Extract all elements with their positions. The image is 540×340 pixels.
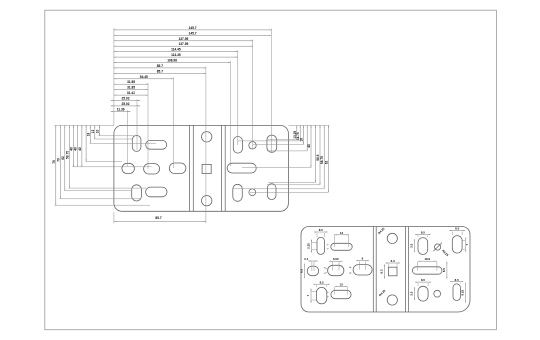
top dim 11.36 (row 16) [114,110,127,112]
svg-text:31.85: 31.85 [127,86,135,90]
svg-text:25.02: 25.02 [122,97,130,101]
svg-text:31.41: 31.41 [127,91,135,95]
left stack top extension line [55,124,114,126]
dim 6.5 right of long slot [446,262,448,279]
left dim 76 [55,125,57,205]
svg-text:6.3: 6.3 [391,259,395,263]
svg-text:108.96: 108.96 [167,59,177,63]
left stack ext y=143.3 [90,142,157,144]
top dim 85.7 (row 8) [114,67,206,69]
svg-text:11.36: 11.36 [117,107,125,111]
left stack ext y=198.8 [60,198,141,200]
main right top vertical slot A [233,137,242,154]
right dim aux [306,125,308,150]
svg-text:13: 13 [340,231,344,235]
left stack ext y=205.2 [55,204,151,206]
main middle top circle [202,132,212,142]
dim 6.3 above square [387,264,389,267]
right dim 14.75 [299,125,301,140]
dim 8.5 above slot [316,233,318,237]
left dim 40 [73,125,75,166]
svg-text:6.52: 6.52 [333,257,339,261]
svg-text:85.7: 85.7 [157,69,163,73]
dim 18.9 above [417,262,419,271]
top stack ext x=230.3 [229,61,231,166]
left dim 40 [81,125,83,166]
main view plate outline [114,125,289,211]
top dim 114.45 (row 6) [114,56,238,58]
main middle square hole [202,164,211,173]
svg-text:85.7: 85.7 [155,216,161,220]
main left middle slot 1 [122,163,134,173]
bottom dim 85.7 [114,220,206,222]
detail R vertical slot bottom A [418,286,428,301]
top stack ext x=237.8 [237,50,239,145]
svg-text:85.7: 85.7 [157,64,163,68]
detail R vertical slot top B [452,236,462,254]
main right top small circle [249,142,256,149]
main left bottom vertical slot [132,185,142,201]
tick arrows around middle slot 1 [325,267,327,270]
bottom ext left [113,212,115,223]
detail view plate outline [301,227,470,313]
main left top horizontal slot [146,140,167,149]
top dim 137.95 (row 3) [114,40,253,42]
detail L vertical slot bottom [316,287,326,304]
right stack ext y=140.9 [238,140,301,142]
detail R vertical slot bottom B [453,284,460,301]
top dim 31.41 (row 13) [114,94,148,96]
svg-text:40: 40 [307,144,311,148]
detail bend line right pair [405,227,407,313]
detail M top circle [387,233,397,243]
top dim 85.7 (row 9) [114,72,206,74]
left dim 70 [59,125,61,198]
svg-text:2.1: 2.1 [304,257,308,261]
detail L middle slot 3 [353,265,372,275]
svg-text:145.7: 145.7 [189,26,197,30]
tick arrows left of top H slot [327,244,329,245]
top dim 145.7 (row 1) [114,29,272,31]
left dim aux [85,125,87,161]
top dim 25.02 (row 15) [114,105,137,107]
svg-text:10: 10 [96,130,100,134]
detail R bottom circle [434,290,441,297]
svg-text:6.5: 6.5 [442,268,446,272]
svg-text:3.5: 3.5 [409,291,413,295]
tick arrows left of bottom H slot [327,292,329,293]
svg-text:2.25: 2.25 [307,243,311,249]
tick arrows left of middle slot 2 [324,267,326,268]
svg-text:13: 13 [339,282,343,286]
right stack ext y=192.3 [250,191,328,193]
svg-text:18: 18 [86,133,90,137]
svg-text:6.3: 6.3 [380,269,384,273]
svg-text:62: 62 [324,161,328,165]
top stack ext x=173.6 [173,77,175,168]
svg-text:59.75: 59.75 [65,151,69,159]
detail L horizontal slot bottom [331,290,351,298]
bend line left pair [189,125,191,211]
left dim 13 [94,125,96,139]
dim 7 left of bottom slot [310,289,312,303]
dim 9.25 right [464,283,466,303]
svg-text:40: 40 [78,147,82,151]
left dim 40 [77,125,79,166]
dim 13 above slot [334,234,336,247]
top stack ext x=127.3 [126,110,128,166]
right stack ext y=184.8 [267,184,320,186]
top stack ext x=271.4 [270,29,272,153]
dim 2.1 above [311,262,313,271]
dim 2.25 left of slot [311,240,313,253]
svg-text:6.5: 6.5 [299,269,303,273]
detail bend line left pair [372,227,374,313]
svg-text:145.7: 145.7 [189,31,197,35]
right dim 40 [310,125,312,167]
right dim 58.75 [323,125,325,188]
svg-text:8.5: 8.5 [320,280,324,284]
svg-text:18.9: 18.9 [424,257,430,261]
dim 6 above [359,261,361,270]
top dim 31.85 (row 11) [114,83,148,85]
left dim 59.75 [68,125,70,188]
left dim 62 [64,125,66,190]
main left top vertical slot [132,135,141,151]
svg-text:62: 62 [61,156,65,160]
top stack ext x=253 [252,40,254,150]
top dim 108.96 (row 7) [114,62,230,64]
svg-text:54.45: 54.45 [140,75,148,79]
main right bottom vertical slot B [267,184,276,200]
main right top vertical slot B [267,135,277,152]
dim 6.3 left of square [384,264,386,278]
dim 8.5 above [451,232,453,236]
svg-text:8.5: 8.5 [455,227,459,231]
main left middle slot 2 [144,164,160,174]
svg-text:114.45: 114.45 [171,53,181,57]
left stack ext y=188.1 [69,187,147,189]
dim 8.5 above [417,235,419,237]
top stack ext x=205.9 (centre) [205,67,207,224]
svg-text:8.5: 8.5 [455,278,459,282]
main left bottom horizontal slot [146,187,167,197]
detail R long slot [412,267,442,274]
top dim 31.85 (row 12) [114,89,148,91]
main left middle slot 3 [169,163,186,174]
right dim aux [315,125,317,182]
left stack ext y=139.0 [94,138,133,140]
screw circle with slash [435,244,441,250]
dim 8.5 above [452,282,454,285]
detail R vertical slot top A [418,238,428,255]
svg-text:8.5: 8.5 [421,278,425,282]
right stack ext y=150.9 [267,150,307,152]
svg-text:8.5: 8.5 [319,228,323,232]
main right bottom vertical slot A [233,184,243,201]
svg-text:9.25: 9.25 [460,290,464,296]
dim 6.52 above [332,262,334,271]
right stack ext y=144.4 [253,143,304,145]
left stack ext y=190.5 [64,190,132,192]
svg-text:31.85: 31.85 [127,80,135,84]
svg-text:76: 76 [52,160,56,164]
top dim 54.45 (row 10) [114,78,174,80]
svg-text:8.5: 8.5 [421,231,425,235]
detail L horizontal slot top [331,243,352,250]
top stack ext left edge [113,28,115,125]
dim 3.5 left [413,287,415,300]
right dim 62 [327,125,329,192]
left stack ext y=161.5 [86,161,123,163]
top dim 137.95 (row 4) [114,45,253,47]
top stack ext x=137 [136,99,138,150]
dim 8.5 above [417,283,419,286]
top dim 25.02 (row 14) [114,100,137,102]
right dim 18 [303,125,305,144]
right stack ext y=188.8 [233,188,324,190]
detail M square hole [388,267,397,276]
right dim 13.25 [296,125,298,139]
dim 3.5 left [413,239,415,252]
left stack ext y=166.8 [73,166,152,168]
left dim 18 [89,125,91,143]
detail L middle slot 2 [328,265,344,275]
left stack ext y=135.8 [99,135,137,137]
svg-text:137.95: 137.95 [179,37,189,41]
svg-text:70: 70 [56,158,60,162]
top stack ext x=148 [147,83,149,169]
svg-text:25.02: 25.02 [122,102,130,106]
right stack ext y=139.3 [267,138,297,140]
dim 13 above bottom H slot [334,287,336,295]
dim 8.5 above bottom slot [315,285,317,287]
bend line right pair [221,125,223,211]
right stack ext y=182.5 [268,182,316,184]
main right bottom small circle [249,189,256,196]
tick arrows left of middle slot 3 [349,267,351,268]
top dim 145.7 (row 2) [114,34,272,36]
detail L middle slot 1 [307,266,319,276]
dim 7 right [465,237,467,252]
svg-text:114.45: 114.45 [171,48,181,52]
svg-text:137.95: 137.95 [179,42,189,46]
svg-text:3.5: 3.5 [409,243,413,247]
svg-text:13: 13 [91,130,95,134]
right stack ext y=167.5 [242,167,311,169]
main middle bottom circle [202,196,212,206]
top dim 114.45 (row 5) [114,51,238,53]
right dim 56.5 [319,125,321,184]
dim 6.5 left [303,264,305,279]
right stack top extension line [288,124,329,126]
left dim 10 [99,125,101,135]
sheet border frame [45,10,497,330]
detail L vertical slot top [317,237,325,254]
detail M bottom circle [387,295,397,305]
main right middle long slot [227,163,256,173]
